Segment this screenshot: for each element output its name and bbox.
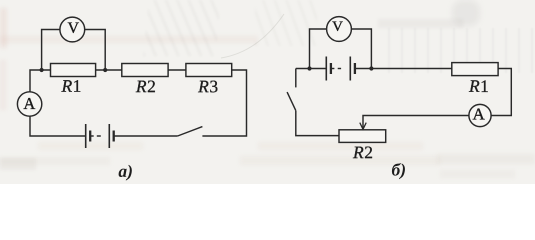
svg-text:V: V bbox=[68, 20, 80, 37]
svg-text:A: A bbox=[23, 94, 35, 113]
svg-text:R3: R3 bbox=[197, 76, 218, 96]
svg-text:V: V bbox=[332, 19, 343, 35]
svg-text:R2: R2 bbox=[135, 76, 156, 96]
svg-text:б): б) bbox=[392, 160, 407, 180]
svg-text:R2: R2 bbox=[352, 142, 373, 162]
svg-text:R1: R1 bbox=[60, 76, 81, 96]
svg-text:A: A bbox=[472, 105, 485, 124]
svg-text:R1: R1 bbox=[468, 76, 489, 96]
svg-text:а): а) bbox=[118, 161, 133, 181]
